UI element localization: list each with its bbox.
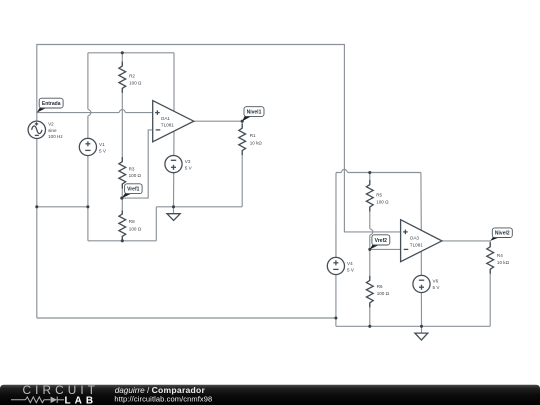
op-amp OA3 TL081: [401, 220, 442, 262]
resistor R1 10kohm: [239, 124, 263, 155]
svg-text:5 V: 5 V: [347, 267, 355, 272]
svg-text:Vref1: Vref1: [127, 187, 139, 193]
wire OA3 V+ stub: [420, 173, 422, 231]
wire ground rail A: V2 to V1: [37, 206, 88, 208]
junction R5 top on +5V rail 2: [368, 171, 371, 174]
wire OA1 V+ stub: [173, 53, 175, 111]
svg-text:100 Ω: 100 Ω: [129, 173, 142, 178]
wire R5/R6 column (hops over + input row): [369, 173, 371, 185]
ground symbol circuit2: [415, 333, 428, 340]
voltage source V1 5V: [79, 138, 107, 155]
svg-text:10 kΩ: 10 kΩ: [250, 140, 263, 145]
junction R6 bottom on ground rail 2: [368, 325, 371, 328]
svg-text:R6: R6: [377, 284, 383, 289]
svg-text:100 Hz: 100 Hz: [48, 134, 63, 139]
svg-text:OA1: OA1: [161, 116, 171, 121]
svg-text:Vref2: Vref2: [375, 238, 387, 244]
wire hop: R5/R6 column over + input row: [368, 229, 371, 235]
wire OA1 inverting input to Vref1 node: [122, 130, 153, 198]
svg-text:http://circuitlab.com/cnmfx98: http://circuitlab.com/cnmfx98: [114, 394, 212, 403]
node Nivel2 label flag: [490, 228, 512, 241]
svg-text:100 Ω: 100 Ω: [376, 200, 389, 205]
wire inner +5V rail circuit1: [88, 52, 174, 54]
node Vref2 label flag: [370, 235, 390, 250]
op-amp OA1 TL081: [153, 101, 194, 142]
wire jog vertical: [155, 207, 157, 241]
wire OA1 V- / V3 / ground column: [173, 131, 176, 207]
wire hop: circuit2 top rail over outer-right vertical: [341, 171, 347, 174]
wire OA3 V- / V6 column: [420, 251, 422, 326]
junction V1- on ground rail: [86, 205, 89, 208]
node Nivel1 label flag: [242, 107, 264, 122]
node Vref1 label flag: [122, 184, 142, 198]
svg-text:V4: V4: [347, 261, 353, 266]
junction node Vref1: [120, 197, 123, 200]
resistor R5 100ohm: [366, 180, 389, 211]
wire R2/R3/R8 column: [121, 53, 123, 66]
wire OA3 inverting input row from Vref2: [370, 248, 401, 250]
svg-text:R5: R5: [376, 193, 382, 198]
voltage source V3 5V (inverted): [165, 156, 193, 173]
resistor R3 100ohm: [119, 157, 142, 188]
svg-text:TL081: TL081: [161, 122, 174, 127]
svg-text:sine: sine: [48, 128, 57, 133]
wire Entrada row: V2/node to OA1 + input: [37, 112, 153, 114]
svg-text:R4: R4: [497, 253, 503, 258]
svg-text:100 Ω: 100 Ω: [129, 227, 142, 232]
svg-text:V3: V3: [185, 159, 191, 164]
svg-text:5 V: 5 V: [185, 165, 193, 170]
wire OA1 output row to Nivel1 / R1 column: [194, 121, 242, 128]
junction R2 top on +5V rail: [121, 51, 124, 54]
resistor R4 10kohm: [487, 242, 510, 273]
CircuitLab logo: [11, 383, 99, 405]
junction V3+ / ground symbol node: [172, 205, 175, 208]
svg-text:V6: V6: [433, 278, 439, 283]
svg-text:5 V: 5 V: [433, 285, 441, 290]
resistor R6 100ohm: [366, 276, 389, 307]
voltage source V6 5V (inverted): [413, 275, 440, 292]
resistor R8 100ohm: [119, 211, 142, 240]
wire long ground wire to circuit2: [37, 317, 336, 319]
junction node Nivel1: [241, 120, 244, 123]
svg-text:R8: R8: [129, 219, 135, 224]
svg-text:daguirre / Comparador: daguirre / Comparador: [115, 385, 206, 395]
wire ground stub circuit1: [173, 207, 175, 214]
voltage source V2 sine 100Hz: [28, 121, 63, 139]
resistor R2 100ohm: [119, 62, 142, 93]
svg-text:R2: R2: [129, 73, 135, 78]
svg-text:Nivel2: Nivel2: [495, 231, 510, 237]
wire hop: V1 branch over Entrada row: [86, 109, 89, 115]
svg-text:Nivel1: Nivel1: [247, 110, 262, 116]
svg-text:TL081: TL081: [410, 242, 423, 247]
svg-text:R3: R3: [129, 166, 135, 171]
wire OA3 output row to Nivel2 / R4 column: [442, 241, 490, 247]
wire V4 branch: circuit2 rail corner down to ground rail: [335, 173, 337, 327]
svg-text:V2: V2: [48, 121, 54, 126]
svg-text:100 Ω: 100 Ω: [377, 291, 390, 296]
svg-text:R1: R1: [250, 133, 256, 138]
svg-text:V1: V1: [99, 142, 105, 147]
wire circuit2 top rail (hops over outer-right vertical): [336, 172, 421, 174]
junction ground wire to V4- branch: [334, 316, 337, 319]
wire outer loop: top rail + left side + right side to OA3 + input: [37, 45, 401, 319]
voltage source V4 5V: [327, 257, 355, 274]
svg-text:OA3: OA3: [410, 235, 420, 240]
junction V2- on ground rail: [35, 205, 38, 208]
svg-text:5 V: 5 V: [99, 148, 107, 153]
wire ground rail C: jog to R1 bottom: [156, 206, 242, 208]
node Entrada label flag: [37, 98, 63, 112]
svg-text:LAB: LAB: [65, 395, 98, 405]
wire hop: Entrada row over R2/R3 column: [119, 111, 125, 114]
junction R8 bottom on ground rail: [121, 239, 124, 242]
svg-text:10 kΩ: 10 kΩ: [497, 260, 510, 265]
wire V1 branch vertical (hops over Entrada row): [87, 53, 89, 241]
svg-text:Entrada: Entrada: [42, 101, 61, 107]
junction V6+ / ground symbol node 2: [420, 325, 423, 328]
ground symbol circuit1: [167, 214, 180, 221]
wire ground stub circuit2: [421, 326, 423, 333]
svg-text:100 Ω: 100 Ω: [129, 81, 142, 86]
wire circuit2 bottom rail: [336, 325, 490, 327]
wire ground rail B: V1 to jog: [88, 240, 156, 242]
junction node Vref2: [368, 248, 371, 251]
